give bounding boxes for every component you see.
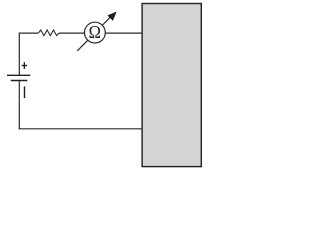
wire top-left horizontal: [19, 32, 38, 34]
gray box (device under test): [142, 4, 201, 167]
battery minus label: [24, 86, 26, 98]
ohmmeter M1 circle: [85, 22, 106, 43]
meter arrow lower segment: [77, 40, 87, 51]
battery negative plate: [11, 80, 28, 82]
battery plus label: [22, 62, 28, 69]
wire bottom horizontal: [19, 127, 142, 130]
resistor R: [38, 30, 59, 36]
meter arrow upper segment: [102, 16, 111, 25]
wire resistor to meter: [59, 32, 85, 34]
svg-text:Ω: Ω: [89, 22, 101, 42]
wire meter to gray box: [105, 32, 142, 34]
battery positive plate: [7, 74, 30, 76]
wire left vertical (top): [18, 33, 20, 75]
wire left vertical (bottom): [18, 81, 20, 129]
meter arrowhead: [108, 12, 116, 20]
